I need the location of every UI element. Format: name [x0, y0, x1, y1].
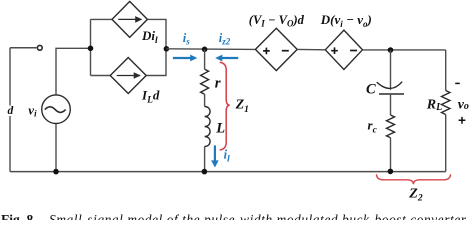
wire: parallel loop right vertical — [165, 19, 167, 75]
svg-text:C: C — [366, 81, 376, 97]
source vi (AC source circle) — [42, 95, 71, 124]
wire: left port vertical — [9, 48, 11, 172]
dependent current source I_L d (bottom diamond) — [110, 58, 146, 94]
svg-text:vo: vo — [458, 97, 469, 112]
wire: VS1 to VS2 — [297, 48, 325, 50]
label d (duty-cycle input) — [5, 105, 17, 117]
wire: C to r_c — [390, 94, 392, 115]
wire: R_L branch top — [445, 50, 447, 91]
brace Z_2 (red) — [376, 174, 450, 184]
svg-text:il: il — [224, 148, 230, 165]
wire: R_L to bottom rail — [445, 115, 447, 172]
sine wave inside vi — [45, 107, 66, 113]
node dot C (top of r branch) — [202, 47, 208, 53]
capacitor C flat plate — [379, 93, 404, 95]
svg-text:vi: vi — [28, 102, 37, 118]
svg-text:Dil: Dil — [141, 28, 158, 46]
wire: vi branch bottom — [55, 124, 57, 172]
node dot B (right of sources) — [164, 46, 170, 52]
svg-text:Small-signal model of the puls: Small-signal model of the pulse-width mo… — [49, 212, 467, 220]
wire: r_c to bottom rail — [390, 138, 392, 172]
resistor r_c — [387, 115, 395, 138]
node dot F (bottom of vi branch) — [53, 169, 59, 175]
label plus (below v_o) — [459, 117, 466, 124]
brace Z_1 (red) — [220, 62, 230, 150]
resistor R_L — [442, 91, 450, 115]
svg-text:RL: RL — [426, 97, 442, 113]
wire: bottom branch segments — [91, 75, 167, 77]
wire: L to bottom rail — [204, 147, 206, 172]
current arrow i_s (blue, right) — [173, 55, 197, 62]
wire: top branch segments — [91, 18, 167, 20]
svg-text:Fig. 8: Fig. 8 — [1, 212, 33, 220]
svg-text:(VI − VO)d: (VI − VO)d — [249, 13, 305, 29]
current arrow i_l (blue, down) — [211, 145, 219, 167]
svg-text:ILd: ILd — [141, 88, 160, 106]
dependent current source Di_l (top diamond) — [112, 1, 147, 37]
svg-text:r: r — [215, 75, 221, 91]
svg-text:is: is — [183, 31, 190, 46]
wire: parallel loop left vertical — [90, 19, 92, 75]
node dot G (bottom of r_c branch) — [388, 169, 394, 175]
node dot A (left of sources) — [88, 46, 94, 52]
dependent voltage source (V_I - V_O)d — [255, 28, 297, 70]
wire: r branch top — [204, 49, 206, 69]
dependent voltage source D(v_i - v_o) — [325, 30, 362, 69]
label minus (above v_o) — [455, 82, 460, 84]
svg-text:L: L — [215, 120, 225, 136]
resistor r — [201, 69, 209, 94]
svg-text:d: d — [8, 105, 14, 117]
wire: r to L — [204, 94, 206, 106]
inductor L — [205, 107, 210, 147]
wire: bottom rail — [10, 171, 446, 173]
wire: C branch top — [390, 50, 392, 90]
wire: VS2 to right corner — [363, 49, 446, 51]
svg-text:Z1: Z1 — [235, 97, 249, 115]
capacitor C curved plate — [377, 82, 403, 89]
node dot D (top of C branch) — [388, 47, 394, 53]
svg-text:Z2: Z2 — [408, 187, 423, 204]
wire: left port top stub — [10, 47, 37, 49]
open terminal circle — [37, 45, 42, 50]
wire: vi branch top — [56, 48, 91, 95]
svg-text:D(vi − vo): D(vi − vo) — [320, 12, 372, 29]
current arrow i_z2 (blue, left) — [215, 55, 238, 62]
svg-text:iz2: iz2 — [219, 31, 231, 46]
wire: main rail B to VS1 — [166, 48, 255, 51]
node dot E (bottom of L branch) — [202, 169, 208, 175]
svg-text:rc: rc — [368, 118, 378, 136]
